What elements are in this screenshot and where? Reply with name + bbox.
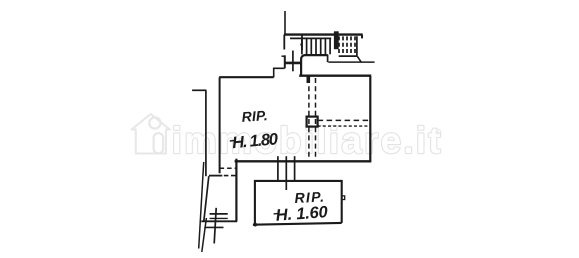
svg-text:RIP.: RIP.: [241, 107, 268, 125]
svg-text:R: R: [435, 131, 439, 137]
svg-text:H. 1.60: H. 1.60: [275, 203, 329, 225]
